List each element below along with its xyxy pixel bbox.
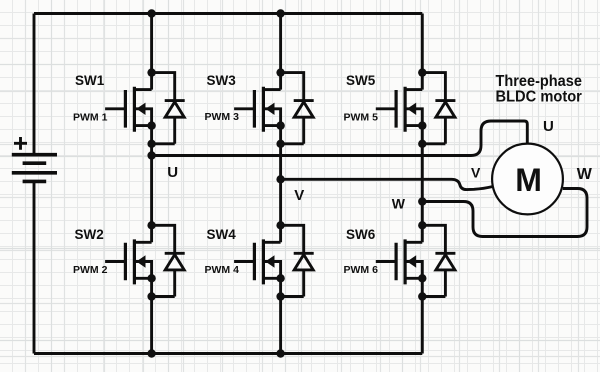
svg-text:SW1: SW1 bbox=[75, 73, 105, 88]
svg-text:Three-phase: Three-phase bbox=[496, 73, 582, 90]
svg-text:BLDC motor: BLDC motor bbox=[496, 89, 582, 106]
svg-text:U: U bbox=[167, 164, 178, 181]
svg-text:U: U bbox=[543, 118, 554, 135]
svg-text:SW4: SW4 bbox=[207, 227, 237, 242]
svg-text:SW3: SW3 bbox=[207, 73, 237, 88]
svg-text:PWM 4: PWM 4 bbox=[205, 264, 240, 276]
svg-text:PWM 1: PWM 1 bbox=[73, 111, 108, 123]
svg-text:PWM 3: PWM 3 bbox=[205, 111, 240, 123]
svg-text:SW2: SW2 bbox=[75, 227, 104, 242]
svg-text:SW5: SW5 bbox=[346, 73, 376, 88]
svg-text:PWM 6: PWM 6 bbox=[344, 264, 379, 276]
svg-text:PWM 5: PWM 5 bbox=[344, 111, 379, 123]
svg-text:V: V bbox=[294, 187, 304, 204]
svg-text:V: V bbox=[471, 165, 481, 181]
svg-text:SW6: SW6 bbox=[346, 227, 376, 242]
svg-text:PWM 2: PWM 2 bbox=[73, 264, 108, 276]
svg-text:W: W bbox=[577, 166, 593, 183]
svg-text:M: M bbox=[515, 162, 542, 198]
svg-text:W: W bbox=[392, 195, 406, 211]
